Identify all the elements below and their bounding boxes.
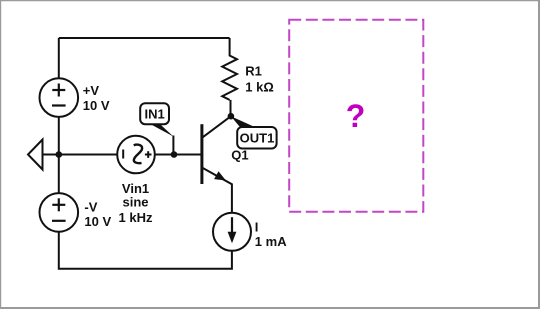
svg-text:10 V: 10 V — [84, 214, 111, 229]
svg-text:sine: sine — [122, 195, 148, 210]
svg-text:10 V: 10 V — [83, 98, 110, 113]
svg-text:I: I — [255, 220, 259, 235]
svg-text:IN1: IN1 — [144, 106, 164, 121]
svg-text:+V: +V — [83, 83, 100, 98]
svg-text:-V: -V — [84, 200, 97, 215]
svg-text:1 kΩ: 1 kΩ — [245, 79, 273, 94]
svg-text:1 kHz: 1 kHz — [119, 210, 153, 225]
svg-text:OUT1: OUT1 — [240, 131, 275, 146]
svg-text:1 mA: 1 mA — [255, 234, 287, 249]
svg-text:Vin1: Vin1 — [122, 181, 149, 196]
svg-text:?: ? — [346, 98, 366, 134]
svg-text:R1: R1 — [245, 63, 262, 78]
svg-text:Q1: Q1 — [231, 148, 248, 163]
